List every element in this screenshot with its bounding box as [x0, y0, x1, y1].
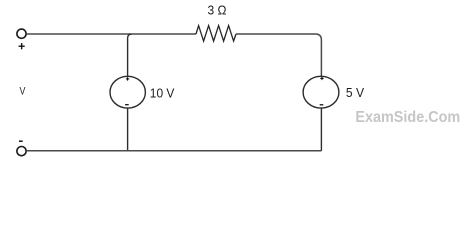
label - inside V2	[320, 104, 324, 106]
wire top-left: terminal to resistor	[26, 33, 196, 35]
wire: bottom lead of source V2 to bottom wire corner	[320, 108, 322, 151]
svg-text:3 Ω: 3 Ω	[208, 2, 227, 17]
label - inside V1	[125, 104, 129, 106]
terminal + (top-left open circle)	[17, 29, 26, 38]
label + (polarity of port V)	[19, 43, 25, 49]
svg-text:10 V: 10 V	[150, 86, 175, 101]
voltage source V1 10V (circle symbol)	[110, 76, 145, 108]
svg-text:V: V	[20, 86, 26, 98]
label - (polarity of port V)	[19, 140, 23, 142]
terminal - (bottom-left open circle)	[17, 147, 26, 156]
wire bottom: from bottom-left terminal to right branch	[26, 150, 321, 152]
resistor R 3ohm (zigzag)	[196, 26, 236, 41]
voltage source V2 5V (circle symbol)	[303, 76, 339, 108]
svg-text:ExamSide.Com: ExamSide.Com	[355, 109, 460, 126]
wire: top lead of source V1 with fillet at T-junction	[128, 34, 132, 76]
label + inside V2	[320, 77, 323, 80]
label + inside V1	[126, 77, 129, 80]
wire top-right: resistor to right branch with rounded corner	[236, 34, 321, 76]
wire: bottom lead of source V1	[127, 108, 129, 151]
svg-text:5 V: 5 V	[346, 85, 364, 100]
